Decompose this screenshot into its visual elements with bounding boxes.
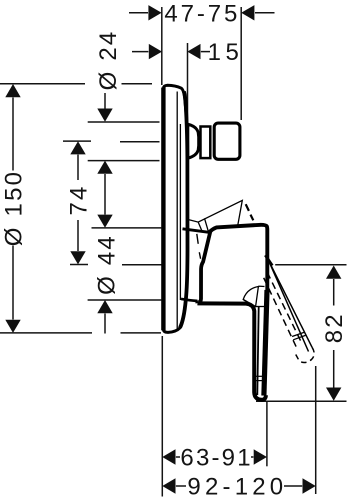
body bottom edge + lever left edge <box>197 303 266 399</box>
plate inner line 2 <box>179 124 181 300</box>
svg-text:Ø 24: Ø 24 <box>95 30 122 91</box>
phantom lever (up position, thin lines) <box>189 200 253 232</box>
bottom extension lines <box>161 336 163 497</box>
dimension 15 <box>132 39 243 66</box>
dashed lever (open position) <box>264 255 314 362</box>
plate inner line 1 <box>176 92 178 330</box>
svg-text:74: 74 <box>66 184 93 215</box>
lever lower bands <box>253 375 266 377</box>
knob centerline ticks <box>63 140 91 142</box>
svg-text:92-120: 92-120 <box>187 474 287 500</box>
svg-text:Ø 44: Ø 44 <box>94 234 121 295</box>
knob cylinder <box>214 123 240 159</box>
lower edge dashed 1 <box>267 272 302 344</box>
handle body <box>197 225 267 400</box>
lever attach flap <box>243 287 258 307</box>
body/lever right edge <box>264 290 267 396</box>
dimension Ø150 <box>0 84 161 333</box>
svg-text:15: 15 <box>208 39 244 66</box>
body left slant edge <box>199 231 211 302</box>
tip bands <box>292 332 305 340</box>
svg-text:63-91: 63-91 <box>180 445 252 472</box>
solid start of top edge <box>265 255 272 265</box>
lever details <box>243 286 266 395</box>
dimension 92-120 <box>162 474 315 500</box>
phantom hidden dashes <box>197 234 201 259</box>
knob ring <box>201 127 211 159</box>
plate front rim (thick left edge) <box>161 88 165 331</box>
extension line at plate face x=187 <box>187 43 189 121</box>
lower edge dashed 2 <box>264 278 298 350</box>
extension line right of 47-75 (knob tip) <box>240 7 242 120</box>
svg-text:Ø 150: Ø 150 <box>1 170 28 246</box>
extension line knob top <box>88 121 160 123</box>
valve boss (Ø44) <box>181 229 210 303</box>
extension line boss bottom <box>88 299 162 301</box>
knob base dome <box>188 124 199 158</box>
extension line boss top <box>92 227 162 229</box>
phantom fold dashes <box>246 204 254 220</box>
dimension 47-75 top <box>129 0 275 27</box>
lever band below flap <box>254 306 266 308</box>
top edge inner thin solid <box>270 263 309 351</box>
escutcheon plate (side view) <box>163 85 187 332</box>
plate right edge (back rim) <box>180 92 188 328</box>
dimension 82 right <box>256 265 347 402</box>
dimension Ø24 vertical (outside arrows) <box>97 93 112 228</box>
extension line knob bottom <box>88 160 160 162</box>
tip cap dashed <box>295 347 314 362</box>
dimension 74 <box>66 141 93 264</box>
lever inner line <box>257 307 258 395</box>
body top edge <box>210 225 268 292</box>
top edge outer thin solid <box>266 256 312 347</box>
dimension 63-91 <box>162 445 267 472</box>
boss centerline ticks <box>70 264 88 266</box>
svg-text:47-75: 47-75 <box>164 0 240 27</box>
svg-text:82: 82 <box>321 312 347 343</box>
extension line left of 47-75 (wall plane) <box>161 7 163 85</box>
Ø44 bottom outside arrow <box>97 300 112 334</box>
